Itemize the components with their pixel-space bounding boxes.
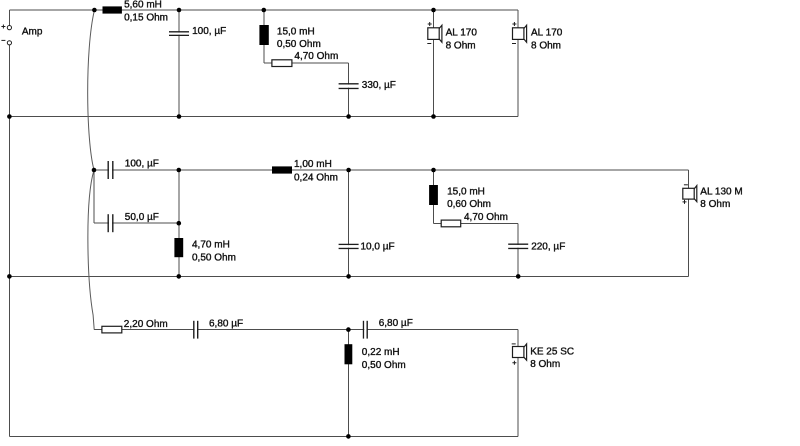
- svg-text:AL 170: AL 170: [531, 28, 563, 39]
- svg-text:AL 170: AL 170: [446, 28, 478, 39]
- inductor 15,0 mH (woofer trap): [259, 25, 320, 50]
- svg-text:0,50 Ohm: 0,50 Ohm: [192, 252, 236, 263]
- node woofer rail / C 100uF: [177, 114, 182, 119]
- node tweeter rail / shunt: [346, 327, 351, 332]
- wire 100uF top cap column: [178, 10, 180, 117]
- node mid bottom / 10uF: [346, 274, 351, 279]
- svg-text:100, µF: 100, µF: [192, 26, 226, 37]
- wire tweeter shunt column: [347, 330, 349, 437]
- node mid rail / trap: [431, 168, 436, 173]
- svg-text:0,50 Ohm: 0,50 Ohm: [277, 39, 321, 50]
- svg-text:0,24 Ohm: 0,24 Ohm: [294, 172, 338, 183]
- capacitor 100 uF (woofer shunt): [169, 26, 226, 37]
- node mid bottom left: [7, 274, 12, 279]
- capacitor 6,80 uF #2 (tweeter series): [364, 318, 413, 339]
- resistor 4,70 Ohm (woofer trap): [272, 51, 338, 67]
- node top rail / C 100uF: [177, 8, 182, 13]
- wire amp plus to top rail: [8, 10, 10, 26]
- svg-text:Amp: Amp: [22, 27, 43, 38]
- svg-text:5,60 mH: 5,60 mH: [124, 0, 162, 10]
- capacitor 6,80 uF #1 (tweeter series): [194, 319, 243, 339]
- node top rail / trap: [262, 8, 267, 13]
- wire 330uF column: [348, 63, 350, 116]
- capacitor 100 uF (mid series): [108, 158, 159, 179]
- amplifier Amp: [1, 25, 43, 45]
- node top rail / curve: [92, 8, 97, 13]
- svg-text:0,50 Ohm: 0,50 Ohm: [362, 360, 406, 371]
- wire speaker2 column: [517, 10, 519, 117]
- node mid bottom / shunt: [177, 274, 182, 279]
- svg-text:100, µF: 100, µF: [125, 158, 159, 169]
- svg-text:4,70 mH: 4,70 mH: [192, 240, 230, 251]
- svg-text:6,80 µF: 6,80 µF: [209, 319, 243, 330]
- node mid rail / curve: [92, 168, 97, 173]
- node woofer rail left: [7, 114, 12, 119]
- svg-text:8 Ohm: 8 Ohm: [446, 40, 476, 51]
- wire curved feed from mid to tweeter section: [88, 170, 94, 330]
- wire mid 10uF column: [348, 170, 350, 276]
- svg-text:8 Ohm: 8 Ohm: [530, 359, 560, 370]
- svg-text:2,20 Ohm: 2,20 Ohm: [124, 319, 168, 330]
- svg-text:1,00 mH: 1,00 mH: [294, 159, 332, 170]
- svg-text:6,80 µF: 6,80 µF: [379, 318, 413, 329]
- inductor 15,0 mH (mid trap): [429, 185, 491, 210]
- node mid rail / shunt: [177, 168, 182, 173]
- wire amp minus down left side: [8, 45, 10, 436]
- inductor 5,60 mH: [103, 0, 169, 24]
- wire tweeter bottom rail: [9, 435, 518, 437]
- wire 15mH trap column top: [263, 10, 265, 63]
- node woofer rail / 330uF: [346, 114, 351, 119]
- svg-text:50,0 µF: 50,0 µF: [125, 212, 159, 223]
- wire mid shunt column x179: [178, 170, 180, 276]
- wire tweeter speaker column: [517, 330, 519, 437]
- wire mid top rail: [94, 169, 688, 171]
- inductor 0,22 mH (tweeter shunt): [345, 344, 406, 371]
- svg-text:4,70 Ohm: 4,70 Ohm: [464, 212, 508, 223]
- node mid rail / 10uF: [346, 168, 351, 173]
- speaker KE 25 SC: [512, 344, 574, 370]
- capacitor 10,0 uF (mid shunt): [339, 241, 395, 252]
- svg-text:8 Ohm: 8 Ohm: [700, 199, 730, 210]
- wire woofer bottom rail: [9, 116, 518, 118]
- inductor 4,70 mH (mid shunt): [174, 238, 236, 263]
- wire mid speaker column: [687, 170, 689, 276]
- speaker AL 170 #1: [427, 22, 477, 51]
- wire mid left caps vertical link: [93, 170, 95, 223]
- wire tweeter top rail: [94, 329, 518, 331]
- svg-text:330, µF: 330, µF: [362, 80, 396, 91]
- svg-text:0,60 Ohm: 0,60 Ohm: [447, 199, 491, 210]
- wire speaker1 column: [433, 10, 435, 117]
- node mid bottom / 220uF: [516, 274, 521, 279]
- capacitor 220 uF (mid trap): [508, 242, 565, 253]
- speaker AL 130 M: [683, 185, 743, 210]
- node 50uF right: [177, 221, 182, 226]
- speaker AL 170 #2: [512, 22, 563, 51]
- resistor 2,20 Ohm (tweeter series): [102, 319, 168, 333]
- node top rail / speaker1: [431, 8, 436, 13]
- wire mid trap column: [433, 170, 435, 223]
- svg-text:15,0 mH: 15,0 mH: [277, 26, 315, 37]
- capacitor 330 uF (woofer trap): [339, 80, 396, 91]
- svg-text:220, µF: 220, µF: [531, 242, 565, 253]
- svg-text:8 Ohm: 8 Ohm: [531, 40, 561, 51]
- capacitor 50,0 uF (mid series): [108, 212, 159, 232]
- wire mid 50uF row: [94, 222, 179, 224]
- svg-text:15,0 mH: 15,0 mH: [447, 186, 485, 197]
- wire mid trap resistor row: [434, 222, 519, 224]
- wire mid 220uF column: [517, 223, 519, 276]
- svg-text:4,70 Ohm: 4,70 Ohm: [294, 51, 338, 62]
- wire trap resistor row: [264, 62, 349, 64]
- wire mid bottom rail: [9, 275, 688, 277]
- wire top rail: [9, 9, 518, 11]
- node tweeter bottom / shunt: [346, 434, 351, 439]
- resistor 4,70 Ohm (mid trap): [441, 212, 508, 227]
- svg-text:KE 25 SC: KE 25 SC: [530, 346, 574, 357]
- inductor 1,00 mH (mid series): [272, 159, 338, 183]
- svg-text:AL 130 M: AL 130 M: [700, 186, 742, 197]
- svg-text:10,0 µF: 10,0 µF: [361, 241, 395, 252]
- node woofer rail / speaker1: [431, 114, 436, 119]
- wire curved feed from amp to mid section: [88, 10, 95, 170]
- svg-text:0,22 mH: 0,22 mH: [362, 347, 400, 358]
- svg-text:0,15 Ohm: 0,15 Ohm: [124, 13, 168, 24]
